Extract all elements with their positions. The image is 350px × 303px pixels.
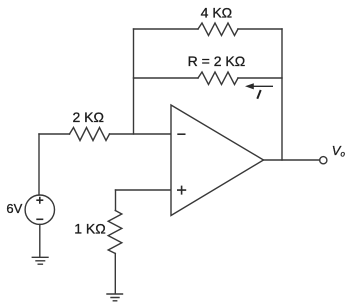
voltage source 6V circle — [25, 195, 54, 224]
resistor 1 KΩ (vertical) — [108, 211, 122, 254]
wire: source bottom lead — [39, 224, 41, 256]
source plus symbol — [36, 197, 43, 204]
ground (1 KΩ) — [107, 294, 123, 301]
source minus symbol — [36, 218, 43, 220]
op-amp plus input symbol — [177, 186, 186, 195]
op-amp U1 triangle — [171, 105, 264, 216]
wire: top feedback branch left segment — [134, 28, 199, 30]
wire: inverting input wire — [39, 133, 171, 135]
svg-text:R = 2 KΩ: R = 2 KΩ — [188, 53, 246, 69]
label I (current) — [257, 90, 260, 99]
svg-text:Vo: Vo — [332, 143, 346, 159]
wire: source top lead — [38, 134, 40, 195]
svg-text:4 KΩ: 4 KΩ — [201, 5, 232, 21]
resistor R = 2 KΩ (second feedback) — [198, 72, 238, 85]
resistor 4 KΩ (top feedback) — [198, 23, 238, 36]
svg-text:2 KΩ: 2 KΩ — [72, 109, 103, 125]
wire: 1 KΩ top lead — [115, 190, 117, 211]
wire: top feedback branch right segment — [238, 28, 282, 30]
svg-text:1 KΩ: 1 KΩ — [74, 221, 105, 237]
wire: non-inverting input wire — [116, 189, 171, 191]
wire: 1 KΩ bottom lead — [114, 254, 116, 294]
wire: output wire — [264, 159, 320, 161]
wire: right feedback vertical — [281, 29, 283, 160]
wire: left feedback vertical — [133, 29, 135, 134]
wire: second feedback branch left segment — [134, 77, 199, 79]
output terminal (open circle) — [320, 157, 327, 164]
wire: second feedback branch right segment — [238, 77, 282, 79]
current arrow I — [245, 83, 273, 89]
resistor 2 KΩ (input) — [70, 128, 110, 141]
ground (source) — [32, 257, 48, 264]
svg-text:6V: 6V — [6, 201, 22, 216]
op-amp minus input symbol — [177, 133, 185, 135]
